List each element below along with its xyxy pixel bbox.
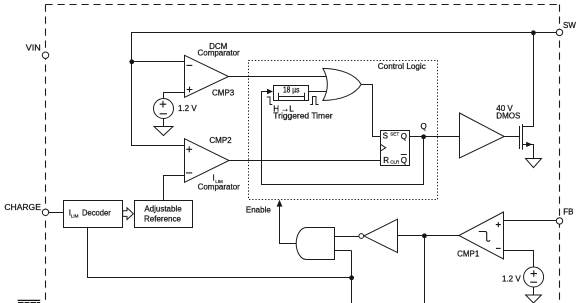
svg-text:Triggered Timer: Triggered Timer xyxy=(273,111,333,120)
svg-text:S: S xyxy=(383,131,388,140)
svg-text:Adjustable: Adjustable xyxy=(144,204,182,213)
svg-text:1.2 V: 1.2 V xyxy=(178,104,197,113)
svg-text:Comparator: Comparator xyxy=(197,49,240,58)
svg-text:R: R xyxy=(383,156,389,165)
svg-text:VIN: VIN xyxy=(26,43,41,52)
svg-text:SW: SW xyxy=(563,21,576,30)
svg-text:CLR: CLR xyxy=(390,160,400,165)
svg-text:CMP1: CMP1 xyxy=(457,249,480,258)
svg-text:CMP2: CMP2 xyxy=(209,136,232,145)
svg-text:Comparator: Comparator xyxy=(198,183,241,192)
svg-text:Reference: Reference xyxy=(144,214,181,223)
svg-text:1.2 V: 1.2 V xyxy=(502,274,521,283)
svg-text:DMOS: DMOS xyxy=(496,112,520,121)
svg-text:LIM: LIM xyxy=(71,214,79,219)
svg-text:CMP3: CMP3 xyxy=(212,89,235,98)
svg-text:CHARGE: CHARGE xyxy=(4,203,41,212)
svg-text:Enable: Enable xyxy=(246,206,271,215)
svg-text:FB: FB xyxy=(563,208,573,217)
svg-text:Decoder: Decoder xyxy=(82,208,111,217)
svg-text:Control Logic: Control Logic xyxy=(378,62,426,71)
svg-text:Q: Q xyxy=(401,156,407,165)
svg-text:SET: SET xyxy=(390,131,399,136)
svg-text:18 µs: 18 µs xyxy=(283,85,300,94)
svg-text:Q: Q xyxy=(421,122,427,131)
svg-text:Q: Q xyxy=(401,132,407,141)
